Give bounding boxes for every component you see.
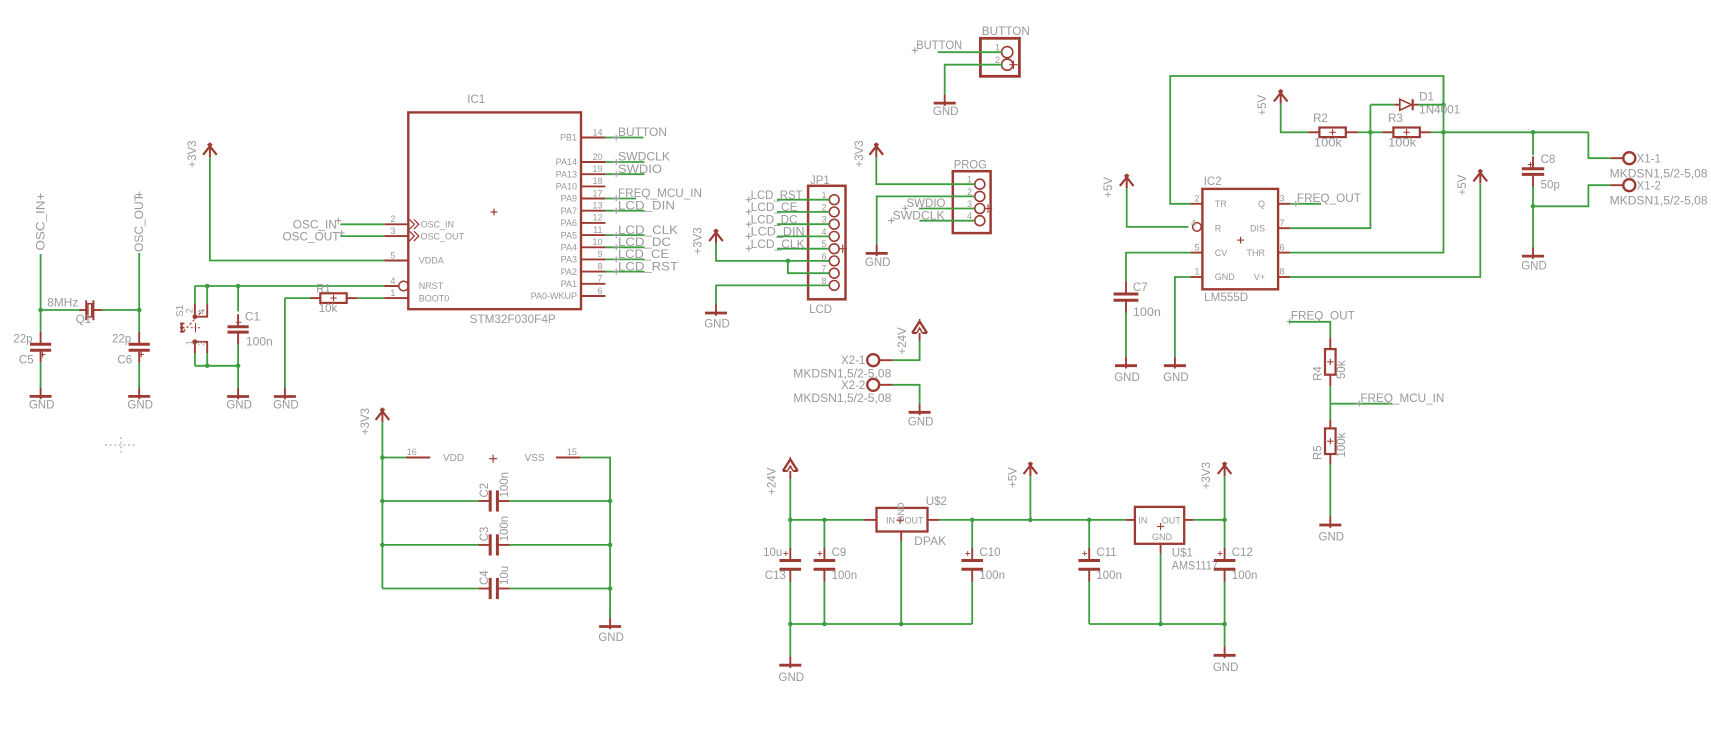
net label LCD_CLK at IC1 [613, 225, 678, 238]
svg-text:SWDIO: SWDIO [907, 198, 946, 210]
wire +3V3 to VDDA pin 5 [210, 157, 384, 260]
svg-text:PA7: PA7 [561, 206, 577, 216]
svg-text:GND: GND [865, 257, 891, 269]
wire Q FREQ_OUT [1290, 203, 1321, 205]
wire Q1 to C6 [138, 310, 140, 332]
svg-text:1: 1 [821, 190, 826, 200]
svg-text:GND: GND [1152, 532, 1173, 542]
label OSC_OUT origin cross [136, 192, 142, 198]
wire C4 right [510, 588, 611, 590]
svg-text:MKDSN1,5/2-5,08: MKDSN1,5/2-5,08 [1610, 196, 1708, 208]
wire junction to R3 [1370, 131, 1382, 133]
wire C7 to GND [1125, 313, 1127, 356]
name R5 (rotated) [1312, 445, 1324, 460]
IC1 pin 11 number [593, 225, 602, 235]
wire 3V3 out [1193, 519, 1225, 521]
svg-text:3: 3 [967, 199, 972, 209]
IC2 pin name CV [1215, 248, 1228, 258]
IC1 pin 9 PA3 [581, 258, 605, 260]
wire C1 bottom [237, 345, 239, 366]
wire net LCD_DIN at IC1 [605, 210, 644, 212]
U$1 IN lead [1126, 519, 1135, 521]
junction rail at C11 [1087, 518, 1092, 523]
svg-text:OSC_OUT: OSC_OUT [421, 231, 465, 241]
PROG pin 2 circle [975, 191, 985, 201]
svg-text:2: 2 [390, 214, 395, 224]
supply +3V3 (VDD gate) label [360, 408, 372, 435]
wire U$1 GND [1160, 553, 1162, 624]
svg-text:PA5: PA5 [561, 230, 577, 240]
net label LCD_DIN at IC1 [613, 200, 675, 213]
IC2 pin 7 number [1280, 218, 1285, 228]
BUTTON pin 1 number [995, 43, 1000, 53]
svg-text:THR: THR [1247, 248, 1266, 258]
ground below BUTTON label [933, 106, 959, 118]
wire gnd rail left [790, 623, 972, 625]
wire net LCD_RST at IC1 [605, 271, 644, 273]
name C13 [765, 570, 786, 582]
IC2 pin 5 lead [1190, 252, 1202, 254]
svg-text:+5V: +5V [1457, 174, 1469, 195]
supply +3V3 (VDD gate) [376, 408, 390, 423]
wire net LCD_CLK at IC1 [605, 234, 644, 236]
svg-text:VSS: VSS [525, 453, 545, 464]
ground below C12 rail [1214, 624, 1236, 658]
svg-text:3: 3 [197, 341, 207, 346]
junction gnd rail U$2 [899, 622, 904, 627]
IC2 box [1202, 189, 1278, 289]
IC1 power gate origin cross [489, 455, 497, 463]
connector BUTTON box [980, 38, 1019, 76]
value 100n of C11 [1096, 570, 1122, 582]
svg-text:1: 1 [1194, 267, 1199, 277]
U$1 pin name GND [1152, 532, 1173, 542]
IC1 pin 8 number [597, 261, 602, 271]
svg-text:VDD: VDD [443, 453, 464, 464]
svg-text:7: 7 [821, 264, 826, 274]
svg-text:100n: 100n [246, 334, 273, 348]
capacitor C7 [1114, 282, 1139, 313]
wire VSS to right rail [580, 458, 610, 618]
wire C9 top [823, 520, 825, 548]
wire LCD_CE at JP1 [777, 211, 829, 213]
svg-text:V+: V+ [1254, 272, 1265, 282]
junction right at C4 [608, 586, 613, 591]
svg-text:GND: GND [29, 400, 55, 412]
svg-text:1: 1 [967, 175, 972, 185]
ground below C5 label [29, 400, 55, 412]
ground below JP1 label [704, 319, 730, 331]
svg-text:IN: IN [1138, 515, 1147, 525]
IC2 pin 8 number [1280, 267, 1285, 277]
connector X1-2 circle [1623, 179, 1635, 191]
ground below R1 net [274, 384, 296, 399]
name R2 [1313, 113, 1328, 125]
wire R2 to junction [1358, 131, 1371, 133]
junction JP1 pin6/pin7 [786, 259, 791, 264]
wire LCD_DIN at JP1 [777, 235, 829, 237]
PROG origin cross [984, 204, 992, 212]
name X1-2 [1637, 180, 1661, 192]
svg-text:X2-2: X2-2 [841, 380, 865, 392]
connector PROG box [953, 171, 991, 233]
name D1 [1419, 92, 1434, 104]
BUTTON pin 1 circle [1002, 47, 1013, 58]
JP1 pin 5 number [821, 239, 826, 249]
value 100k of R2 [1314, 138, 1342, 150]
junction NRST at C1 [236, 284, 241, 289]
ground below X2-2 [909, 401, 931, 415]
supply +3V3 (out) label [1201, 462, 1213, 489]
IC1 pin 3 OSC_OUT number [390, 226, 395, 236]
junction left at C3 [380, 543, 385, 548]
svg-text:X2-1: X2-1 [841, 355, 865, 367]
value 1N4001 [1419, 105, 1460, 117]
wire JP1 pin8 to GND [716, 285, 829, 305]
U$2 pin name IN [886, 515, 895, 525]
svg-text:BUTTON: BUTTON [618, 127, 667, 139]
svg-text:LCD_CE: LCD_CE [751, 202, 798, 214]
JP1 pin 7 number [821, 264, 826, 274]
svg-text:GND: GND [704, 319, 730, 331]
svg-text:R5: R5 [1312, 445, 1324, 460]
wire C12 top [1224, 520, 1226, 548]
svg-text:20: 20 [592, 152, 602, 162]
IC2 pin 6 lead [1278, 252, 1290, 254]
junction at C8 top [1531, 130, 1536, 135]
capacitor C4 [478, 578, 509, 599]
IC2 pin 1 lead [1190, 276, 1202, 278]
wire JP1 pin7 [788, 261, 829, 273]
svg-text:R1: R1 [316, 283, 331, 295]
IC1 pin 13 PA7 [581, 210, 605, 212]
wire IC2 GND pin1 [1175, 277, 1191, 355]
supply +3V3 (PROG) [870, 143, 884, 158]
svg-text:C5: C5 [19, 354, 34, 366]
name R4 (rotated) [1312, 366, 1324, 381]
diode D1 1N4001 [1394, 99, 1418, 110]
svg-text:+3V3: +3V3 [1201, 462, 1213, 489]
net label OSC_OUT at IC1 [283, 230, 345, 243]
C9 origin cross [818, 551, 823, 556]
IC1 pin 2 OSC_IN [384, 219, 419, 229]
svg-text:LCD_DIN: LCD_DIN [751, 227, 805, 239]
IC1 pin name PA1 [561, 279, 577, 289]
value LM555D [1204, 292, 1248, 304]
R3 left lead [1382, 131, 1393, 133]
svg-text:12: 12 [592, 213, 602, 223]
svg-text:GND: GND [273, 400, 299, 412]
IC1 pin name PA6 [561, 218, 577, 228]
IC2 pin 2 number [1194, 194, 1199, 204]
wire R1 to BOOT0 left [285, 297, 310, 299]
wire C5 to GND [40, 363, 42, 388]
svg-text:GND: GND [1163, 372, 1189, 384]
IC2 pin 7 lead [1278, 227, 1290, 229]
value 100n of C3 (rotated) [499, 516, 511, 542]
wire net LCD_CE at IC1 [605, 258, 644, 260]
net label BUTTON net [912, 40, 962, 54]
wire C12 bottom [1224, 582, 1226, 625]
pin name VSS [525, 453, 545, 464]
value 100n of C7 [1133, 307, 1161, 319]
IC2 pin 6 number [1280, 242, 1285, 252]
supply +5V (R2) [1274, 89, 1288, 104]
svg-text:8: 8 [821, 276, 826, 286]
net label LCD_CE at IC1 [613, 249, 669, 262]
S1 pin number 1 [184, 340, 194, 345]
svg-text:PROG: PROG [954, 160, 987, 172]
supply +3V3 (JP1) [709, 229, 723, 244]
supply +24V (X2) label [897, 327, 909, 355]
JP1 pin 4 number [821, 227, 826, 237]
svg-text:3: 3 [821, 215, 826, 225]
wire C13 top [789, 520, 791, 548]
junction bottom at C1 [236, 364, 241, 369]
svg-text:13: 13 [592, 201, 602, 211]
svg-text:C10: C10 [979, 547, 1000, 559]
name C6 [117, 354, 132, 366]
IC1 pin 1 BOOT0 number [390, 288, 395, 298]
IC1 pin 10 PA4 [581, 246, 605, 248]
ground below C7 [1115, 355, 1137, 369]
IC1 pin 3 OSC_OUT name [421, 231, 465, 241]
IC1 pin name PA5 [561, 230, 577, 240]
IC2 pin name THR [1247, 248, 1266, 258]
svg-text:OUT: OUT [1162, 515, 1182, 525]
junction THR at D1 row [1441, 102, 1446, 107]
svg-text:4: 4 [197, 309, 207, 314]
JP1 pin 3 number [821, 215, 826, 225]
svg-text:DIS: DIS [1250, 223, 1265, 233]
capacitor C2 [478, 490, 509, 511]
wire C8 to GND [1532, 206, 1534, 243]
svg-text:LCD: LCD [809, 304, 832, 316]
wire PROG pin2 to GND [877, 196, 975, 242]
junction bottom at S1 pin3 [205, 364, 210, 369]
svg-text:OSC_OUT: OSC_OUT [134, 194, 146, 252]
supply +3V3 (near IC1) [203, 143, 217, 158]
U$1 pin name OUT [1162, 515, 1182, 525]
name C9 [832, 547, 847, 559]
net label FREQ_MCU_IN lower [1356, 393, 1444, 407]
IC2 pin name V+ [1254, 272, 1265, 282]
wire C8 top lead [1532, 132, 1534, 155]
svg-text:6: 6 [821, 251, 826, 261]
wire net FREQ_MCU_IN at IC1 [605, 198, 636, 200]
value LCD [809, 304, 832, 316]
PROG pin 1 number [967, 175, 972, 185]
svg-text:LCD_RST: LCD_RST [751, 190, 803, 202]
connector X1-1 circle [1623, 152, 1635, 164]
R2 left lead [1308, 131, 1319, 133]
wire +5V to R2 [1281, 104, 1309, 133]
resistor R3 [1393, 128, 1419, 138]
svg-text:FREQ_MCU_IN: FREQ_MCU_IN [1360, 393, 1444, 405]
svg-text:PA6: PA6 [561, 218, 577, 228]
svg-text:+24V: +24V [767, 467, 779, 495]
name X2-2 [841, 380, 865, 392]
R5 bottom lead [1329, 454, 1331, 464]
capacitor C1 [228, 314, 249, 344]
supply +5V (rail) label [1007, 467, 1019, 488]
svg-text:C4: C4 [479, 570, 491, 585]
svg-text:OSC_IN: OSC_IN [293, 220, 337, 232]
IC1 box [408, 112, 581, 309]
name C1 [245, 309, 261, 323]
junction at C12 top [1222, 518, 1227, 523]
wire OSC_IN stub [340, 223, 384, 225]
svg-text:JP1: JP1 [810, 175, 830, 187]
wire C8 bottom [1532, 187, 1534, 207]
value 100n of C10 [979, 570, 1005, 582]
svg-text:5: 5 [1194, 242, 1199, 252]
regulator U$1 box [1135, 507, 1184, 544]
svg-text:16: 16 [407, 447, 417, 457]
IC1 pin 2 OSC_IN number [390, 214, 395, 224]
svg-text:18: 18 [592, 176, 602, 186]
ground below C6 [128, 386, 150, 399]
IC1 pin name PA10 [556, 182, 577, 192]
supply +24V (X2) [912, 319, 927, 341]
value 50k of R4 (rotated) [1336, 360, 1348, 379]
svg-text:PA13: PA13 [556, 169, 577, 179]
wire DIS vertical [1290, 105, 1370, 229]
PROG pin 3 circle [975, 204, 985, 214]
net label BUTTON at IC1 [613, 127, 667, 140]
capacitor C3 [478, 534, 509, 555]
wire THR vertical [1290, 76, 1443, 253]
PROG pin 2 number [967, 187, 972, 197]
svg-text:BUTTON: BUTTON [982, 26, 1030, 38]
svg-text:+5V: +5V [1103, 177, 1115, 198]
supply +5V (V+) label [1457, 174, 1469, 195]
svg-text:1: 1 [184, 340, 194, 345]
svg-text:MKDSN1,5/2-5,08: MKDSN1,5/2-5,08 [1610, 169, 1708, 181]
R1 right lead [346, 297, 357, 299]
svg-text:3: 3 [1280, 194, 1285, 204]
wire to R5 [1329, 404, 1331, 420]
wire R1 left vertical [284, 298, 286, 384]
svg-text:2: 2 [967, 187, 972, 197]
junction rail at C13 [788, 518, 793, 523]
IC2 pin 2 lead [1190, 203, 1202, 205]
value 10u of C13 [763, 547, 782, 559]
supply +24V (input) [783, 457, 798, 479]
value 22p of C5 [13, 334, 32, 346]
wire +5V stem [1029, 476, 1031, 520]
supply +3V3 (near IC1) label [187, 140, 199, 167]
svg-text:17: 17 [592, 188, 602, 198]
name S1 (rotated) [175, 304, 186, 317]
wire D1 anode [1370, 104, 1394, 106]
value 10k [319, 303, 338, 315]
svg-text:14: 14 [592, 127, 602, 137]
net label FREQ_OUT at IC2 [1293, 193, 1361, 206]
IC2 pin name DIS [1250, 223, 1265, 233]
svg-text:100n: 100n [499, 516, 511, 542]
wire X2-2 to GND [893, 385, 920, 401]
R3 right lead [1420, 131, 1431, 133]
IC1 pin name PA3 [561, 255, 577, 265]
U$2 pin name OUT [905, 515, 925, 525]
wire C2 right [510, 500, 611, 502]
net label LCD_RST at JP1 [746, 190, 803, 203]
net label LCD_CE at JP1 [746, 202, 798, 215]
net label SWDIO at IC1 [613, 164, 662, 177]
IC1 pin name PA0-WKUP [531, 291, 577, 301]
ground below IC2 pin1 [1164, 355, 1186, 369]
capacitor C6 [129, 332, 150, 363]
svg-text:GND: GND [1521, 261, 1547, 273]
capacitor C8 [1522, 156, 1544, 187]
ground below R5 [1319, 515, 1341, 528]
wire net LCD_DC at IC1 [605, 246, 644, 248]
net label FREQ_MCU_IN at IC1 [613, 188, 702, 201]
ground below C1 [227, 384, 249, 399]
junction at Q1 right [137, 308, 142, 313]
junction rail at +5V [1028, 518, 1033, 523]
JP1 pin 6 circle [829, 256, 839, 266]
svg-text:PB1: PB1 [560, 133, 577, 143]
JP1 pin 4 circle [829, 232, 839, 242]
connector X2-1 circle [867, 354, 879, 366]
svg-text:OSC_IN: OSC_IN [421, 220, 455, 230]
supply +3V3 (PROG) label [854, 140, 866, 167]
R4 top lead [1329, 338, 1331, 350]
PROG pin 4 number [967, 211, 972, 221]
IC2 pin 4 bubble [1193, 223, 1202, 232]
value 100n of C2 (rotated) [499, 472, 511, 498]
svg-text:FREQ_OUT: FREQ_OUT [1291, 311, 1355, 323]
svg-text:GND: GND [933, 106, 959, 118]
name Q1 [76, 314, 91, 326]
svg-text:TR: TR [1215, 199, 1227, 209]
wire C10 bottom [971, 582, 973, 625]
svg-text:6: 6 [597, 286, 602, 296]
svg-text:8MHz: 8MHz [47, 298, 78, 310]
BUTTON pin 2 number [995, 55, 1000, 65]
IC2 pin 3 lead [1278, 203, 1290, 205]
name C3 (rotated) [479, 527, 491, 542]
IC1 pin 17 PA9 [581, 198, 605, 200]
wire C1 to GND [237, 366, 239, 384]
supply +5V (rail) [1024, 462, 1038, 477]
svg-text:OUT: OUT [905, 515, 925, 525]
IC1 pin 5 VDDA [384, 260, 408, 262]
value 8MHz [47, 298, 78, 310]
svg-text:LCD_CLK: LCD_CLK [618, 225, 678, 237]
svg-text:+24V: +24V [897, 327, 909, 355]
svg-text:4: 4 [1191, 218, 1196, 228]
IC1 VDD pin 16 [406, 457, 430, 459]
svg-text:C12: C12 [1232, 547, 1253, 559]
name X2-1 [841, 355, 865, 367]
wire C1 top [237, 286, 239, 312]
wire +24V to rail [789, 479, 791, 520]
wire FREQ_OUT to R4 [1289, 322, 1331, 338]
svg-text:GND: GND [127, 400, 153, 412]
wire R4 to FREQ_MCU_IN [1329, 386, 1331, 404]
ground below C6 label [127, 400, 153, 412]
label OSC_IN origin cross [38, 194, 44, 200]
svg-text:BOOT0: BOOT0 [419, 293, 450, 303]
ground below C5 [30, 386, 52, 399]
wire CV to C7 [1126, 253, 1190, 282]
wire C10 top [971, 520, 973, 548]
value 100k of R5 (rotated) [1336, 432, 1348, 457]
IC2 origin cross [1237, 237, 1244, 244]
